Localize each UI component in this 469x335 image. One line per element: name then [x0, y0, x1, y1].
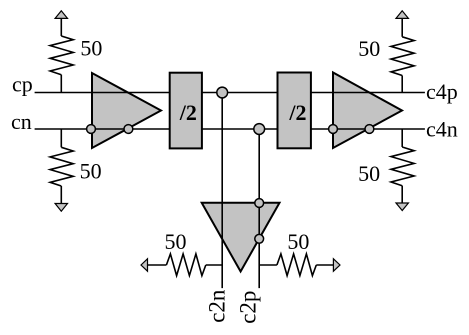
svg-text:cp: cp: [12, 72, 33, 97]
svg-text:c2n: c2n: [205, 289, 230, 323]
svg-text:/2: /2: [179, 100, 197, 125]
svg-text:c4p: c4p: [426, 79, 458, 104]
svg-text:c4n: c4n: [426, 116, 458, 141]
svg-text:50: 50: [358, 36, 380, 61]
svg-text:50: 50: [165, 229, 187, 254]
svg-text:50: 50: [358, 161, 380, 186]
svg-text:c2p: c2p: [236, 291, 261, 324]
svg-text:/2: /2: [288, 100, 306, 125]
svg-text:cn: cn: [11, 109, 32, 134]
svg-text:50: 50: [80, 159, 102, 184]
svg-text:50: 50: [80, 36, 102, 61]
svg-text:50: 50: [287, 229, 309, 254]
